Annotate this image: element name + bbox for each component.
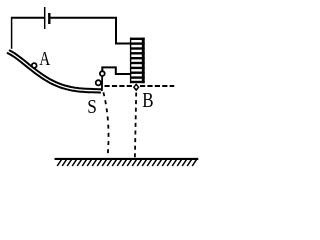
- dashed drop line from B to ground: [135, 93, 136, 158]
- svg-text:S: S: [87, 96, 97, 118]
- ball A on track: [32, 63, 37, 68]
- switch S lower contact: [96, 80, 101, 85]
- wire left horizontal from battery: [11, 17, 44, 19]
- ground hatching: [57, 160, 196, 166]
- curved track upper rail: [9, 50, 101, 89]
- ground line: [55, 158, 199, 160]
- wire left vertical down to track: [11, 17, 13, 49]
- wire right from battery to coil top-left: [50, 18, 130, 44]
- ball held at B (diamond node): [133, 83, 140, 91]
- battery cell: long plate: [44, 7, 46, 29]
- switch S link wire: [101, 76, 103, 91]
- horizontal dashed reference line right of B: [140, 85, 174, 87]
- electromagnet coil: [130, 38, 145, 84]
- dashed trajectory from S to ground: [103, 92, 108, 157]
- svg-text:B: B: [142, 88, 153, 112]
- wire from coil lower-left to switch upper contact: [102, 67, 130, 74]
- battery cell: short plate: [48, 13, 50, 24]
- switch S upper contact: [100, 71, 105, 76]
- curved track lower rail: [7, 53, 101, 93]
- horizontal dashed reference line left of B: [105, 85, 133, 87]
- svg-text:A: A: [39, 48, 50, 70]
